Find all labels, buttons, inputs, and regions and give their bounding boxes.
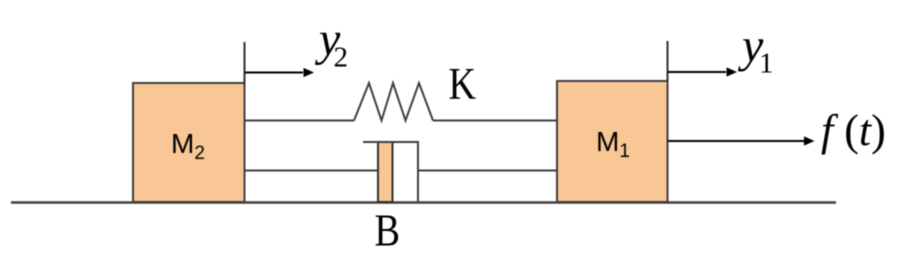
- svg-text:2: 2: [334, 42, 349, 74]
- arrow y2: [245, 13, 348, 77]
- node y2 reference line: [244, 42, 246, 84]
- ground: [11, 201, 836, 203]
- svg-text:f (t): f (t): [821, 106, 886, 155]
- svg-text:K: K: [449, 59, 477, 109]
- wire damper to M1: [418, 170, 557, 172]
- node y1 reference line: [667, 41, 669, 82]
- damper B cylinder: [363, 141, 418, 202]
- svg-text:B: B: [375, 206, 401, 256]
- arrow y1: [668, 20, 774, 80]
- arrow f(t): [668, 106, 886, 155]
- wire spring to M1: [433, 120, 557, 122]
- mass M2: [133, 83, 245, 202]
- spring K: [354, 59, 476, 121]
- wire M2 to damper piston: [245, 170, 379, 172]
- svg-text:1: 1: [759, 48, 774, 80]
- damper B piston: [378, 142, 393, 202]
- mass M1: [557, 81, 668, 202]
- wire M2 to spring: [245, 120, 355, 122]
